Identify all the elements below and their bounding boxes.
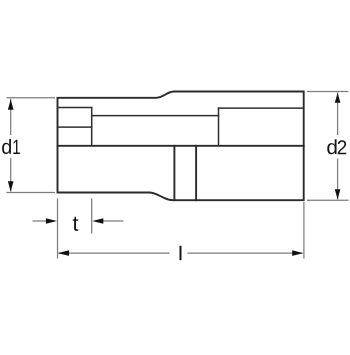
d2 dimension line lower segment (337, 159, 339, 200)
label l glyph l (180, 246, 182, 260)
d2 extension line top (307, 91, 349, 93)
d1 dimension line lower segment (10, 158, 12, 192)
t arrow right (46, 218, 57, 224)
d1 extension line top (7, 97, 56, 99)
right face extension line (l) (303, 202, 305, 259)
label d1 glyph 1 (13, 140, 20, 154)
d2 arrow down (335, 189, 341, 199)
t dimension line right shaft (102, 220, 124, 222)
groove line right (195, 146, 197, 200)
l arrow right (292, 250, 303, 256)
hex-bore end wall (218, 108, 220, 146)
d1 arrow down (8, 181, 14, 191)
d2 extension line bottom (307, 199, 349, 201)
l arrow left (58, 250, 69, 256)
square-drive chamfer line top (58, 107, 92, 109)
hex-bore top line (219, 107, 304, 109)
groove line left (173, 146, 175, 200)
d1 arrow up (8, 99, 14, 110)
l dimension line left segment (59, 252, 170, 254)
t right extension line (91, 198, 93, 233)
socket body outline (58, 92, 304, 201)
l dimension line right segment (188, 252, 303, 254)
square-drive flat line (58, 126, 92, 128)
left face extension line (t and l) (57, 199, 59, 259)
d1 extension line bottom (7, 192, 56, 194)
through-bore line (92, 115, 219, 117)
d2 dimension line upper segment (337, 93, 339, 136)
t arrow left (92, 218, 103, 224)
d2 arrow up (335, 93, 341, 103)
section centerline (58, 145, 304, 147)
label d1 glyph d (2, 139, 11, 154)
label d2 glyph d (327, 139, 336, 154)
square-drive back wall (91, 108, 93, 146)
t dimension line left shaft (33, 220, 48, 222)
d1 dimension line upper segment (10, 99, 12, 135)
label d2 glyph 2 (338, 140, 347, 154)
label t glyph t (73, 217, 79, 231)
